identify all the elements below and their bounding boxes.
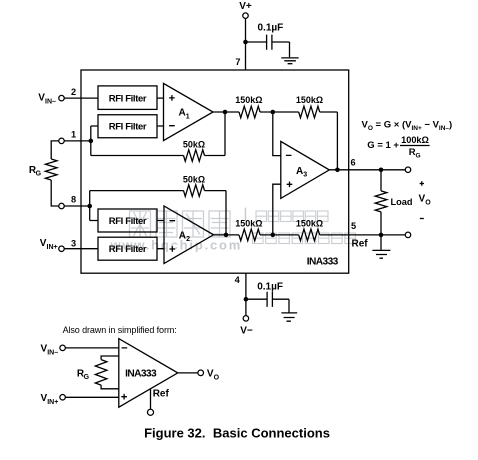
- svg-text:6: 6: [350, 157, 355, 167]
- svg-text:G: G: [416, 153, 421, 160]
- svg-text:1: 1: [186, 113, 190, 120]
- svg-text:V+: V+: [239, 1, 252, 12]
- svg-text:IN+: IN+: [47, 399, 58, 406]
- svg-text:3: 3: [71, 238, 76, 248]
- svg-text:RFI Filter: RFI Filter: [109, 216, 147, 227]
- svg-text:2: 2: [71, 87, 76, 97]
- svg-text:A: A: [179, 108, 186, 119]
- svg-text:5: 5: [351, 221, 356, 231]
- svg-text:7: 7: [235, 57, 240, 67]
- svg-text:IN–: IN–: [45, 98, 56, 105]
- svg-text:100kΩ: 100kΩ: [401, 135, 429, 145]
- svg-text:IN–: IN–: [47, 350, 58, 357]
- svg-text:2: 2: [186, 236, 190, 243]
- svg-text:RFI Filter: RFI Filter: [109, 122, 147, 133]
- svg-text:150kΩ: 150kΩ: [235, 218, 262, 228]
- svg-text:RFI Filter: RFI Filter: [109, 93, 147, 104]
- svg-text:VO = G × (VIN+ − VIN–): VO = G × (VIN+ − VIN–): [362, 119, 453, 132]
- svg-text:V−: V−: [240, 326, 253, 337]
- svg-text:INA333: INA333: [125, 368, 157, 379]
- svg-text:O: O: [214, 374, 220, 381]
- svg-text:4: 4: [235, 275, 241, 285]
- svg-text:3: 3: [303, 172, 307, 179]
- svg-text:G: G: [36, 171, 42, 178]
- svg-text:A: A: [179, 230, 186, 241]
- svg-text:150kΩ: 150kΩ: [296, 95, 323, 105]
- svg-text:150kΩ: 150kΩ: [235, 95, 262, 105]
- svg-text:INA333: INA333: [307, 256, 339, 267]
- svg-text:Ref: Ref: [352, 238, 369, 249]
- svg-text:O: O: [425, 199, 431, 206]
- svg-text:Also drawn in simplified form:: Also drawn in simplified form:: [63, 325, 177, 335]
- svg-text:Load: Load: [391, 197, 413, 207]
- svg-text:Figure 32.Basic Connections: Figure 32.Basic Connections: [144, 426, 330, 441]
- svg-text:50kΩ: 50kΩ: [183, 139, 205, 149]
- svg-text:0.1µF: 0.1µF: [257, 281, 283, 292]
- svg-text:G: G: [84, 374, 90, 381]
- svg-text:8: 8: [71, 194, 76, 204]
- svg-text:50kΩ: 50kΩ: [183, 174, 205, 184]
- svg-text:1: 1: [71, 129, 76, 139]
- svg-text:0.1µF: 0.1µF: [258, 23, 284, 34]
- svg-text:RFI Filter: RFI Filter: [109, 244, 147, 255]
- svg-text:A: A: [296, 166, 303, 177]
- svg-text:G = 1 +: G = 1 +: [367, 140, 399, 151]
- svg-text:Ref: Ref: [153, 389, 170, 400]
- svg-text:150kΩ: 150kΩ: [296, 218, 323, 228]
- svg-text:IN+: IN+: [47, 244, 58, 251]
